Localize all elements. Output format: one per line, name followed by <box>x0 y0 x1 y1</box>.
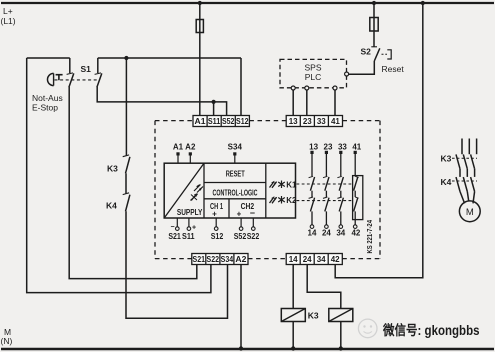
svg-text:S34: S34 <box>228 143 243 152</box>
watermark logo circle <box>358 319 377 338</box>
svg-text:24: 24 <box>322 229 331 238</box>
device type label KS 221-7-24 <box>365 220 374 254</box>
PLC pin circle to 13 <box>291 86 295 90</box>
svg-text:K2: K2 <box>286 196 297 205</box>
CONTROL-LOGIC bottom <box>204 198 266 200</box>
pin S22 internal with circle <box>247 218 260 241</box>
relay K1 label <box>286 181 297 190</box>
pin S52 internal with circle <box>234 218 247 241</box>
switch S1 contact 1 (NC) <box>67 58 74 87</box>
Not-Aus E-Stop label <box>32 93 63 113</box>
svg-text:(N): (N) <box>1 336 13 346</box>
svg-text:K3: K3 <box>308 311 319 321</box>
svg-text:41: 41 <box>331 117 340 126</box>
svg-text:34: 34 <box>317 255 326 264</box>
wire K3 to K4 contact <box>125 173 127 193</box>
mechanical link K1 row dashed <box>297 183 353 185</box>
contact K4 (NC feedback) <box>123 193 130 212</box>
supply section diagonal <box>164 163 204 218</box>
E-stop mushroom actuator <box>47 73 62 85</box>
contact K4 label <box>106 201 117 211</box>
contactor K3 label <box>441 154 452 164</box>
junction dot A1 feed on L+ <box>198 1 202 5</box>
svg-text:A2: A2 <box>185 143 196 152</box>
pin S12 internal with circle <box>211 218 224 241</box>
supply LED icons <box>191 184 204 201</box>
svg-text:KS 221-7-24: KS 221-7-24 <box>365 220 374 254</box>
svg-text:CONTROL-LOGIC: CONTROL-LOGIC <box>213 189 258 198</box>
svg-text:−: − <box>170 224 174 231</box>
output contact column 23-24 <box>322 142 333 237</box>
contactor K4 main contacts <box>456 177 475 191</box>
svg-text:23: 23 <box>324 142 333 151</box>
relay K2 coil icons <box>270 196 285 204</box>
wire coil K3 to M rail <box>292 322 294 349</box>
svg-text:S12: S12 <box>236 117 249 126</box>
svg-text:−: − <box>250 208 255 218</box>
divider logic/relays <box>265 163 267 218</box>
svg-text:A1: A1 <box>195 117 207 126</box>
watermark text <box>382 322 479 338</box>
output contact column 33-34 <box>336 142 347 237</box>
pin A1 internal <box>173 143 184 164</box>
Reset label <box>382 64 405 74</box>
switch S1 contact 2 (NC) <box>95 58 102 87</box>
wire L+ down right side to terminal 42 <box>335 3 423 278</box>
mechanical link K3 bank dashed <box>452 157 477 159</box>
svg-text:SUPPLY: SUPPLY <box>177 208 203 217</box>
svg-text:K3: K3 <box>107 164 118 174</box>
node M label <box>1 327 13 346</box>
svg-text:S22: S22 <box>247 232 260 241</box>
wire branch to S11 <box>213 102 215 116</box>
contactor K3 main contacts <box>456 154 475 168</box>
svg-text:S11: S11 <box>182 232 195 241</box>
wire rail to S12 <box>240 58 242 116</box>
output contact column 13-14 <box>308 142 319 237</box>
wire S2 to PLC output <box>349 61 375 74</box>
wire coil K4 to M rail <box>340 322 342 349</box>
svg-text:14: 14 <box>289 255 298 264</box>
switch S2 reset pushbutton NO contact <box>371 47 391 61</box>
junction dot S2 feed on L+ <box>372 1 376 5</box>
wire A2 terminal to M rail <box>240 265 242 349</box>
svg-text:41: 41 <box>352 142 361 151</box>
svg-text:S11: S11 <box>208 117 221 126</box>
svg-text:S2: S2 <box>361 47 372 57</box>
svg-text:K3: K3 <box>441 154 452 164</box>
svg-text:33: 33 <box>317 117 326 126</box>
motor branch mid wires <box>460 169 475 177</box>
motor branch phase lines <box>462 139 477 155</box>
svg-text:PLC: PLC <box>305 72 322 82</box>
switch S1 label <box>81 64 92 74</box>
CH2 label <box>237 202 255 219</box>
terminal row A1 S11 S52 S12 <box>193 116 249 127</box>
coil K3 label <box>308 311 319 321</box>
divider CH1/CH2 <box>228 199 230 218</box>
svg-text:23: 23 <box>303 117 312 126</box>
motor M1 label <box>466 207 474 218</box>
svg-text:A1: A1 <box>173 143 184 152</box>
contact K3 label <box>107 164 118 174</box>
fuse F1 <box>196 20 203 33</box>
wire L+ to fuse F1 to terminal A1 <box>199 3 201 116</box>
junction dot K4 on M rail <box>339 346 343 350</box>
svg-text:Not-Aus: Not-Aus <box>32 93 63 103</box>
wire K4 contact to S34 <box>126 211 228 318</box>
svg-text:42: 42 <box>331 255 340 264</box>
wire S1 contact1 to S21 <box>69 87 197 279</box>
svg-text:34: 34 <box>336 229 345 238</box>
svg-text:+: + <box>192 225 196 232</box>
wire PLC to terminal 23 <box>306 90 308 115</box>
svg-text:A2: A2 <box>235 255 247 264</box>
pin A2 internal <box>185 143 196 164</box>
wire 14 to coil K3 <box>292 265 294 309</box>
svg-text:S12: S12 <box>211 232 224 241</box>
terminal row 14 24 34 42 <box>286 254 342 265</box>
safety relay boundary dashed box <box>155 121 380 259</box>
wire 24 to coil K4 <box>307 265 341 309</box>
svg-text:+: + <box>212 210 217 219</box>
mechanical link K4 bank dashed <box>452 180 477 182</box>
wire L+ to fuse F2 <box>373 3 375 47</box>
svg-text:M: M <box>466 207 474 218</box>
mechanical link K2 row dashed <box>297 200 353 202</box>
svg-text:+: + <box>237 210 242 219</box>
svg-text:L+: L+ <box>3 6 13 16</box>
node M bottom return rail <box>1 348 494 351</box>
relay K1 coil icons <box>270 181 285 189</box>
svg-text:(L1): (L1) <box>1 16 16 26</box>
node L+ label <box>1 6 16 26</box>
svg-text:S22: S22 <box>207 255 220 264</box>
svg-text:RESET: RESET <box>226 170 245 179</box>
mechanical link S1 dashed <box>55 79 100 81</box>
PLC pin circle right (to S2) <box>345 72 349 76</box>
svg-text:S21: S21 <box>168 232 181 241</box>
divider supply/logic <box>203 163 205 218</box>
junction dot K3 on M rail <box>291 346 295 350</box>
junction dot S11 branch <box>212 100 216 104</box>
svg-text:K1: K1 <box>286 181 297 190</box>
PLC pin circle to 41 <box>333 86 337 90</box>
pin S21 internal with circle <box>168 218 181 241</box>
svg-text:微信号: gkongbbs: 微信号: gkongbbs <box>382 322 479 338</box>
svg-text:13: 13 <box>289 117 298 126</box>
wire E-stop rail segment 1 <box>27 57 70 59</box>
positive-guided enclosure around 41-42 <box>353 176 363 220</box>
svg-text:Reset: Reset <box>382 64 405 74</box>
switch S2 label <box>361 47 372 57</box>
node L+ top supply rail <box>1 2 494 4</box>
relay module U1 main box <box>164 163 295 218</box>
RESET label <box>226 170 245 179</box>
contact K3 (NC feedback) <box>123 155 130 173</box>
PLC pin circle to 23 <box>305 86 309 90</box>
svg-text:K4: K4 <box>441 177 452 187</box>
terminal row 13 23 33 41 <box>286 116 342 127</box>
coil K4 <box>329 309 353 322</box>
coil K3 <box>281 309 305 322</box>
svg-text:E-Stop: E-Stop <box>32 103 58 113</box>
contactor K4 label <box>441 177 452 187</box>
motor M1 <box>459 201 480 222</box>
motor feed wires <box>460 192 475 204</box>
CH1 label <box>210 202 223 219</box>
relay K2 label <box>286 196 297 205</box>
wire PLC to terminal 41 <box>334 90 336 115</box>
CONTROL-LOGIC label <box>213 189 258 198</box>
pin S34 internal <box>228 143 243 164</box>
svg-text:24: 24 <box>303 255 312 264</box>
pin S11 internal with circle <box>182 218 196 241</box>
terminal row S21 S22 S34 A2 <box>192 254 248 265</box>
RESET box bottom <box>204 182 266 184</box>
junction dot A2 on M rail <box>239 346 243 350</box>
svg-text:K4: K4 <box>106 201 117 211</box>
svg-text:S1: S1 <box>81 64 92 74</box>
wire E-stop rail segment 2 <box>98 57 241 59</box>
output contact column 41-42 NC <box>351 142 361 237</box>
svg-text:33: 33 <box>338 142 347 151</box>
svg-text:SPS: SPS <box>304 63 321 73</box>
svg-text:14: 14 <box>308 229 317 238</box>
wire rail to K3 contact <box>125 58 127 156</box>
SPS PLC controller box <box>280 59 347 87</box>
svg-text:S52: S52 <box>222 117 235 126</box>
svg-text:13: 13 <box>309 142 318 151</box>
junction dot 42 feed on L+ <box>421 1 425 5</box>
svg-text:S34: S34 <box>221 255 234 264</box>
junction dot K3K4 chain on rail segment 2 <box>124 56 128 60</box>
svg-text:42: 42 <box>351 229 360 238</box>
wire S1 contact2 to S11 and S52 <box>97 87 226 116</box>
svg-text:S52: S52 <box>234 232 247 241</box>
svg-text:S21: S21 <box>193 255 206 264</box>
wire PLC to terminal 13 <box>292 90 294 115</box>
SUPPLY label <box>177 208 203 217</box>
fuse F2 <box>370 18 378 32</box>
wire left leg to S22 <box>27 58 211 293</box>
